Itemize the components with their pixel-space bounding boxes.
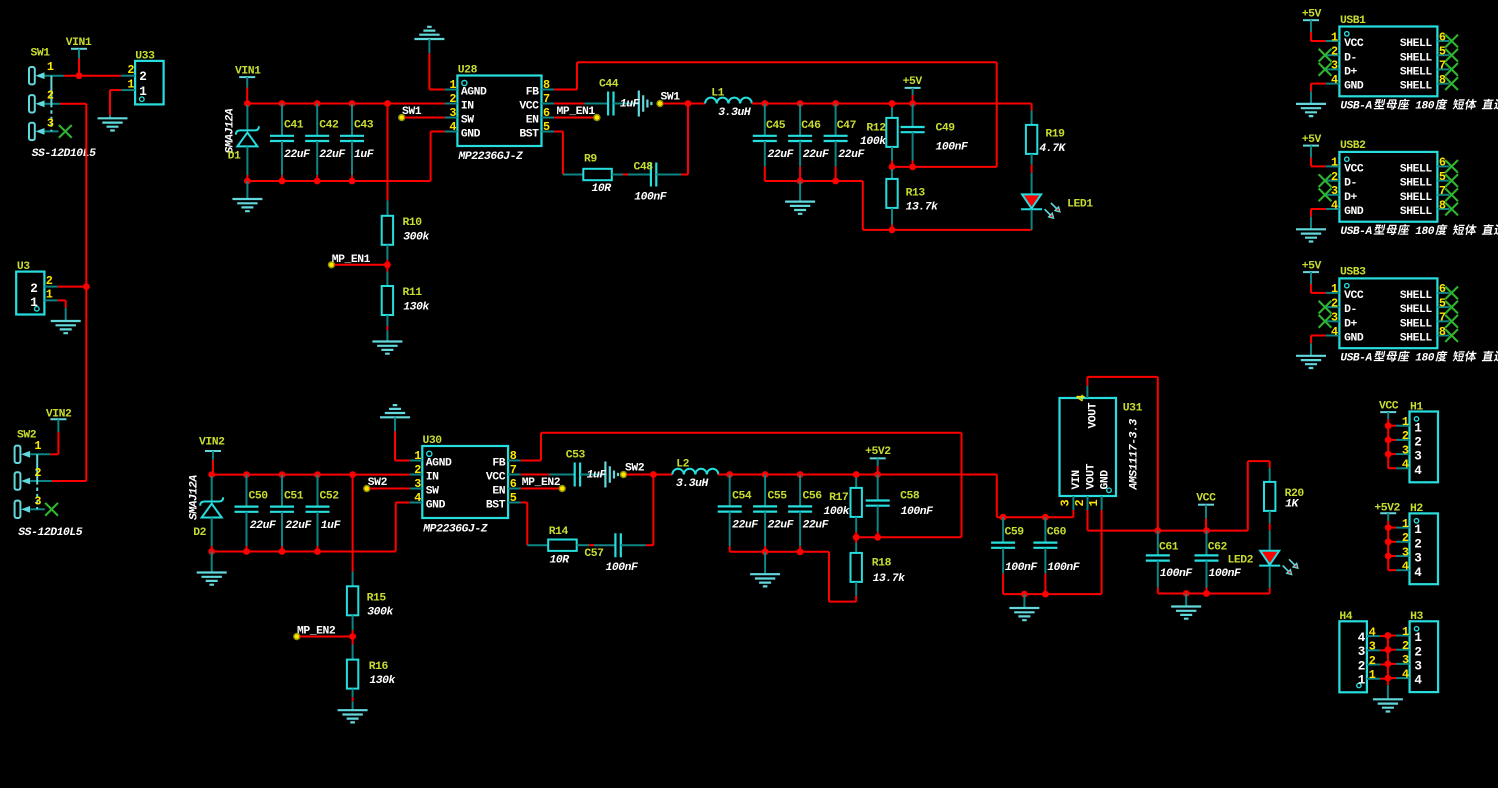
svg-text:C61: C61 — [1159, 542, 1179, 554]
svg-text:R16: R16 — [369, 661, 389, 673]
svg-text:2: 2 — [1402, 429, 1409, 443]
svg-text:1: 1 — [46, 288, 53, 302]
svg-text:3: 3 — [1369, 640, 1376, 654]
svg-text:MP2236GJ-Z: MP2236GJ-Z — [422, 524, 487, 536]
svg-text:1: 1 — [1402, 625, 1409, 639]
svg-text:2: 2 — [127, 63, 134, 77]
svg-text:22uF: 22uF — [803, 149, 830, 161]
svg-text:VCC: VCC — [1196, 492, 1216, 504]
svg-text:SMAJ12A: SMAJ12A — [189, 475, 201, 520]
svg-text:3: 3 — [1331, 184, 1338, 198]
svg-text:MP_EN1: MP_EN1 — [557, 106, 596, 118]
svg-text:+5V: +5V — [903, 76, 923, 88]
svg-text:D+: D+ — [1344, 67, 1357, 79]
svg-text:3: 3 — [414, 477, 421, 491]
svg-text:1: 1 — [414, 449, 421, 463]
svg-text:1: 1 — [127, 77, 134, 91]
svg-text:SHELL: SHELL — [1400, 192, 1433, 204]
svg-text:4: 4 — [1331, 73, 1338, 87]
svg-text:7: 7 — [1439, 184, 1446, 198]
svg-text:2: 2 — [1414, 645, 1421, 659]
svg-text:VCC: VCC — [1344, 164, 1364, 176]
svg-text:SHELL: SHELL — [1400, 38, 1433, 50]
svg-text:6: 6 — [543, 106, 550, 120]
svg-text:C49: C49 — [936, 123, 956, 135]
svg-text:100nF: 100nF — [1209, 568, 1243, 580]
svg-text:22uF: 22uF — [285, 520, 312, 532]
svg-text:MP_EN2: MP_EN2 — [297, 626, 336, 638]
svg-text:BST: BST — [519, 129, 539, 141]
svg-text:AMS1117-3.3: AMS1117-3.3 — [1129, 419, 1141, 491]
svg-text:SW2: SW2 — [625, 462, 645, 474]
svg-text:SW2: SW2 — [368, 477, 388, 489]
svg-text:C50: C50 — [249, 491, 269, 503]
svg-text:2: 2 — [46, 274, 53, 288]
svg-text:8: 8 — [510, 449, 517, 463]
svg-text:2: 2 — [139, 70, 146, 84]
svg-text:3: 3 — [1402, 653, 1409, 667]
svg-text:D-: D- — [1344, 304, 1357, 316]
svg-text:USB-A: USB-A — [1340, 353, 1372, 365]
svg-text:300k: 300k — [403, 232, 429, 244]
svg-text:100nF: 100nF — [1047, 562, 1081, 574]
svg-text:7: 7 — [510, 463, 517, 477]
svg-text:3.3uH: 3.3uH — [676, 478, 709, 490]
svg-text:4: 4 — [1075, 395, 1089, 402]
svg-text:100nF: 100nF — [901, 506, 935, 518]
svg-text:2: 2 — [30, 282, 37, 296]
svg-text:2: 2 — [34, 466, 41, 480]
svg-text:1: 1 — [1402, 517, 1409, 531]
svg-text:+5V: +5V — [1302, 9, 1322, 21]
svg-text:C59: C59 — [1005, 527, 1025, 539]
svg-text:22uF: 22uF — [768, 520, 795, 532]
svg-text:2: 2 — [1358, 659, 1365, 673]
svg-text:SW1: SW1 — [402, 106, 422, 118]
svg-text:VCC: VCC — [519, 101, 539, 113]
svg-text:3: 3 — [47, 116, 54, 130]
svg-text:R12: R12 — [866, 123, 886, 135]
svg-text:1uF: 1uF — [354, 149, 375, 161]
svg-text:C56: C56 — [803, 491, 823, 503]
svg-text:2: 2 — [1402, 639, 1409, 653]
svg-text:1: 1 — [1358, 674, 1366, 688]
svg-text:LED1: LED1 — [1067, 198, 1093, 210]
svg-text:AGND: AGND — [426, 458, 452, 470]
svg-text:6: 6 — [1439, 30, 1446, 44]
svg-text:2: 2 — [1073, 500, 1087, 507]
svg-text:USB3: USB3 — [1340, 267, 1366, 279]
svg-text:4: 4 — [1414, 674, 1422, 688]
svg-text:C42: C42 — [319, 120, 339, 132]
svg-text:H4: H4 — [1339, 611, 1352, 623]
svg-text:U28: U28 — [458, 65, 478, 77]
svg-text:2: 2 — [47, 89, 54, 103]
svg-text:1: 1 — [1087, 500, 1101, 507]
svg-text:VCC: VCC — [1344, 290, 1364, 302]
svg-text:SHELL: SHELL — [1400, 52, 1433, 64]
svg-text:R17: R17 — [829, 492, 849, 504]
svg-text:7: 7 — [543, 92, 550, 106]
svg-text:6: 6 — [510, 477, 517, 491]
svg-text:4: 4 — [1414, 464, 1422, 478]
svg-text:VCC: VCC — [1379, 400, 1399, 412]
svg-text:1: 1 — [449, 78, 456, 92]
svg-text:SHELL: SHELL — [1400, 178, 1433, 190]
svg-text:3: 3 — [1402, 545, 1409, 559]
svg-text:4: 4 — [1358, 631, 1366, 645]
svg-text:180: 180 — [1415, 353, 1435, 365]
svg-text:C54: C54 — [732, 491, 752, 503]
svg-text:5: 5 — [1439, 170, 1446, 184]
svg-text:7: 7 — [1439, 311, 1446, 325]
svg-text:7: 7 — [1439, 59, 1446, 73]
svg-text:1: 1 — [1331, 282, 1338, 296]
svg-text:SW2: SW2 — [17, 430, 37, 442]
svg-text:1: 1 — [1414, 421, 1422, 435]
svg-text:EN: EN — [492, 486, 505, 498]
svg-text:H2: H2 — [1410, 503, 1423, 515]
svg-text:1K: 1K — [1285, 498, 1299, 510]
svg-text:4: 4 — [1402, 667, 1409, 681]
svg-text:C53: C53 — [566, 449, 586, 461]
svg-text:130k: 130k — [369, 675, 395, 687]
svg-text:USB2: USB2 — [1340, 140, 1366, 152]
svg-text:1: 1 — [1369, 668, 1376, 682]
svg-text:6: 6 — [1439, 156, 1446, 170]
svg-text:VCC: VCC — [486, 472, 506, 484]
svg-text:1: 1 — [1331, 30, 1338, 44]
svg-text:SHELL: SHELL — [1400, 318, 1433, 330]
svg-text:U33: U33 — [135, 51, 155, 63]
svg-text:C43: C43 — [354, 120, 374, 132]
svg-text:H1: H1 — [1410, 401, 1423, 413]
svg-text:2: 2 — [1369, 654, 1376, 668]
svg-text:4.7K: 4.7K — [1039, 143, 1066, 155]
svg-text:SW1: SW1 — [31, 48, 51, 60]
svg-text:D2: D2 — [193, 527, 206, 539]
svg-text:22uF: 22uF — [732, 520, 759, 532]
svg-text:2: 2 — [1414, 537, 1421, 551]
svg-text:6: 6 — [1439, 282, 1446, 296]
svg-text:2: 2 — [449, 92, 456, 106]
svg-text:VOUT: VOUT — [1087, 402, 1099, 428]
svg-text:3: 3 — [1414, 450, 1421, 464]
svg-text:1: 1 — [1414, 523, 1422, 537]
svg-text:100nF: 100nF — [1005, 562, 1039, 574]
svg-text:R14: R14 — [549, 526, 569, 538]
svg-text:SW: SW — [426, 486, 439, 498]
svg-text:C52: C52 — [320, 491, 340, 503]
svg-text:13.7k: 13.7k — [906, 202, 939, 214]
svg-text:+5V: +5V — [1302, 260, 1322, 272]
svg-text:C41: C41 — [284, 120, 304, 132]
svg-text:U30: U30 — [423, 435, 443, 447]
svg-text:EN: EN — [526, 115, 539, 127]
svg-text:SMAJ12A: SMAJ12A — [225, 108, 237, 153]
svg-text:100k: 100k — [860, 136, 886, 148]
svg-text:+5V: +5V — [1302, 134, 1322, 146]
svg-text:3: 3 — [1331, 59, 1338, 73]
svg-text:C51: C51 — [284, 491, 304, 503]
svg-text:VIN: VIN — [1071, 470, 1083, 490]
svg-text:D1: D1 — [228, 151, 241, 163]
svg-text:8: 8 — [1439, 73, 1446, 87]
svg-text:4: 4 — [414, 491, 421, 505]
svg-text:100nF: 100nF — [1160, 568, 1194, 580]
svg-text:USB-A: USB-A — [1340, 101, 1372, 113]
svg-text:MP2236GJ-Z: MP2236GJ-Z — [458, 151, 523, 163]
svg-text:4: 4 — [1402, 560, 1409, 574]
svg-text:1uF: 1uF — [321, 520, 342, 532]
svg-text:1uF: 1uF — [587, 470, 608, 482]
svg-text:VIN1: VIN1 — [235, 65, 261, 77]
svg-text:MP_EN1: MP_EN1 — [332, 254, 371, 266]
svg-text:3: 3 — [34, 495, 41, 509]
svg-text:100nF: 100nF — [936, 142, 970, 154]
svg-text:5: 5 — [543, 120, 550, 134]
svg-text:1: 1 — [1331, 156, 1338, 170]
svg-text:2: 2 — [1331, 170, 1338, 184]
svg-text:C58: C58 — [900, 491, 920, 503]
svg-text:22uF: 22uF — [319, 149, 346, 161]
svg-text:R9: R9 — [584, 154, 597, 166]
svg-text:IN: IN — [426, 472, 439, 484]
svg-text:VIN2: VIN2 — [199, 437, 225, 449]
svg-text:R10: R10 — [403, 217, 423, 229]
svg-text:LED2: LED2 — [1228, 554, 1254, 566]
svg-text:100nF: 100nF — [606, 562, 640, 574]
svg-text:100nF: 100nF — [634, 192, 668, 204]
svg-text:22uF: 22uF — [803, 520, 830, 532]
svg-text:1: 1 — [1414, 631, 1422, 645]
svg-text:VCC: VCC — [1344, 38, 1364, 50]
svg-text:C57: C57 — [584, 548, 604, 560]
svg-text:C60: C60 — [1047, 527, 1067, 539]
svg-text:+5V2: +5V2 — [865, 446, 891, 458]
svg-text:4: 4 — [1331, 198, 1338, 212]
svg-text:2: 2 — [1402, 531, 1409, 545]
svg-text:R18: R18 — [872, 557, 892, 569]
svg-text:MP_EN2: MP_EN2 — [522, 477, 561, 489]
svg-text:GND: GND — [461, 129, 481, 141]
svg-text:3: 3 — [1358, 645, 1365, 659]
svg-text:3: 3 — [1414, 660, 1421, 674]
svg-text:VIN1: VIN1 — [66, 37, 92, 49]
svg-text:C55: C55 — [768, 491, 788, 503]
svg-text:USB1: USB1 — [1340, 15, 1366, 27]
svg-text:SHELL: SHELL — [1400, 81, 1433, 93]
svg-text:AGND: AGND — [461, 87, 487, 99]
svg-text:SHELL: SHELL — [1400, 206, 1433, 218]
svg-text:R13: R13 — [906, 188, 926, 200]
svg-text:22uF: 22uF — [250, 520, 277, 532]
svg-text:R15: R15 — [367, 593, 387, 605]
svg-text:1uF: 1uF — [620, 99, 641, 111]
svg-text:SHELL: SHELL — [1400, 333, 1433, 345]
svg-text:8: 8 — [543, 78, 550, 92]
svg-text:22uF: 22uF — [838, 149, 865, 161]
svg-text:3: 3 — [1414, 552, 1421, 566]
svg-text:2: 2 — [414, 463, 421, 477]
svg-text:R11: R11 — [403, 287, 423, 299]
svg-text:4: 4 — [1414, 566, 1422, 580]
svg-text:SHELL: SHELL — [1400, 304, 1433, 316]
svg-text:D+: D+ — [1344, 192, 1357, 204]
svg-text:SHELL: SHELL — [1400, 164, 1433, 176]
svg-text:8: 8 — [1439, 198, 1446, 212]
svg-text:U31: U31 — [1123, 402, 1143, 414]
svg-text:3: 3 — [449, 106, 456, 120]
svg-text:SW: SW — [461, 115, 474, 127]
svg-text:10R: 10R — [550, 555, 570, 567]
svg-text:3: 3 — [1402, 443, 1409, 457]
svg-text:3: 3 — [1331, 311, 1338, 325]
svg-text:BST: BST — [486, 500, 506, 512]
svg-text:13.7k: 13.7k — [873, 573, 906, 585]
svg-text:5: 5 — [1439, 45, 1446, 59]
svg-text:2: 2 — [1331, 45, 1338, 59]
svg-text:2: 2 — [1414, 436, 1421, 450]
svg-text:SHELL: SHELL — [1400, 290, 1433, 302]
svg-text:FB: FB — [526, 87, 539, 99]
svg-text:GND: GND — [1344, 333, 1364, 345]
svg-text:R19: R19 — [1045, 129, 1065, 141]
svg-text:1: 1 — [47, 60, 54, 74]
svg-text:1: 1 — [1402, 415, 1409, 429]
svg-text:SW1: SW1 — [661, 91, 681, 103]
svg-text:D-: D- — [1344, 178, 1357, 190]
svg-text:C46: C46 — [801, 120, 821, 132]
svg-text:3: 3 — [1059, 500, 1073, 507]
svg-text:4: 4 — [449, 120, 456, 134]
svg-text:C45: C45 — [766, 120, 786, 132]
svg-text:180: 180 — [1415, 226, 1435, 238]
svg-text:H3: H3 — [1410, 611, 1423, 623]
svg-text:GND: GND — [426, 500, 446, 512]
svg-text:4: 4 — [1369, 625, 1376, 639]
svg-text:22uF: 22uF — [284, 149, 311, 161]
svg-text:100k: 100k — [823, 506, 849, 518]
svg-text:USB-A: USB-A — [1340, 226, 1372, 238]
svg-text:C44: C44 — [599, 78, 619, 90]
svg-text:8: 8 — [1439, 325, 1446, 339]
svg-text:GND: GND — [1344, 206, 1364, 218]
svg-text:4: 4 — [1331, 325, 1338, 339]
svg-text:180: 180 — [1415, 101, 1435, 113]
svg-text:FB: FB — [492, 458, 505, 470]
svg-text:VOUT: VOUT — [1085, 463, 1097, 489]
svg-text:4: 4 — [1402, 458, 1409, 472]
svg-text:C62: C62 — [1208, 542, 1228, 554]
svg-text:22uF: 22uF — [768, 149, 795, 161]
svg-text:D+: D+ — [1344, 318, 1357, 330]
svg-text:D-: D- — [1344, 52, 1357, 64]
svg-text:300k: 300k — [367, 607, 393, 619]
svg-text:3.3uH: 3.3uH — [718, 107, 751, 119]
svg-text:5: 5 — [1439, 296, 1446, 310]
svg-text:10R: 10R — [592, 183, 612, 195]
svg-text:GND: GND — [1099, 470, 1111, 490]
svg-text:C48: C48 — [634, 162, 654, 174]
svg-text:SHELL: SHELL — [1400, 67, 1433, 79]
svg-text:U3: U3 — [17, 261, 30, 273]
svg-text:C47: C47 — [837, 120, 857, 132]
svg-text:SS-12D10L5: SS-12D10L5 — [18, 527, 82, 539]
svg-text:L1: L1 — [711, 88, 724, 100]
svg-text:IN: IN — [461, 101, 474, 113]
svg-text:5: 5 — [510, 491, 517, 505]
svg-text:L2: L2 — [676, 459, 689, 471]
svg-text:2: 2 — [1331, 296, 1338, 310]
svg-text:130k: 130k — [403, 302, 429, 314]
svg-text:GND: GND — [1344, 81, 1364, 93]
